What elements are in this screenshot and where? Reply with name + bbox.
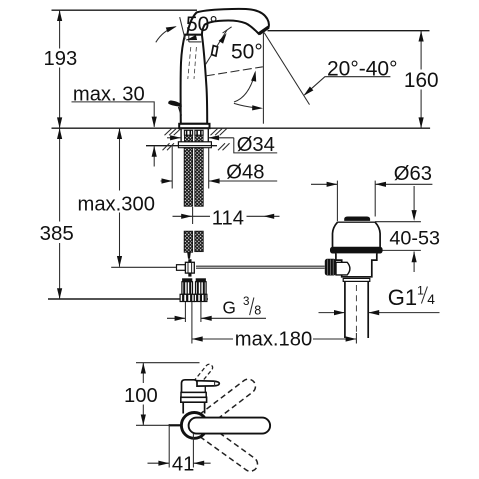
svg-text:50°: 50° — [186, 13, 218, 36]
svg-text:Ø34: Ø34 — [237, 134, 275, 156]
svg-text:193: 193 — [44, 48, 78, 70]
svg-text:Ø63: Ø63 — [394, 163, 432, 185]
svg-text:8: 8 — [254, 304, 261, 318]
svg-text:max.300: max.300 — [78, 193, 155, 215]
svg-text:Ø48: Ø48 — [226, 162, 264, 184]
svg-text:41: 41 — [172, 454, 194, 476]
svg-text:100: 100 — [124, 385, 158, 407]
svg-text:40-53: 40-53 — [389, 228, 440, 250]
svg-text:50°: 50° — [231, 41, 263, 64]
svg-text:G: G — [223, 297, 236, 317]
svg-text:160: 160 — [404, 69, 439, 92]
svg-text:20°-40°: 20°-40° — [327, 58, 398, 81]
svg-text:385: 385 — [40, 222, 74, 245]
svg-text:1: 1 — [417, 283, 424, 297]
svg-text:G1: G1 — [388, 285, 417, 310]
svg-text:4: 4 — [427, 292, 435, 307]
svg-text:114: 114 — [212, 207, 244, 229]
svg-text:max.180: max.180 — [235, 328, 312, 350]
svg-text:3: 3 — [243, 295, 249, 308]
